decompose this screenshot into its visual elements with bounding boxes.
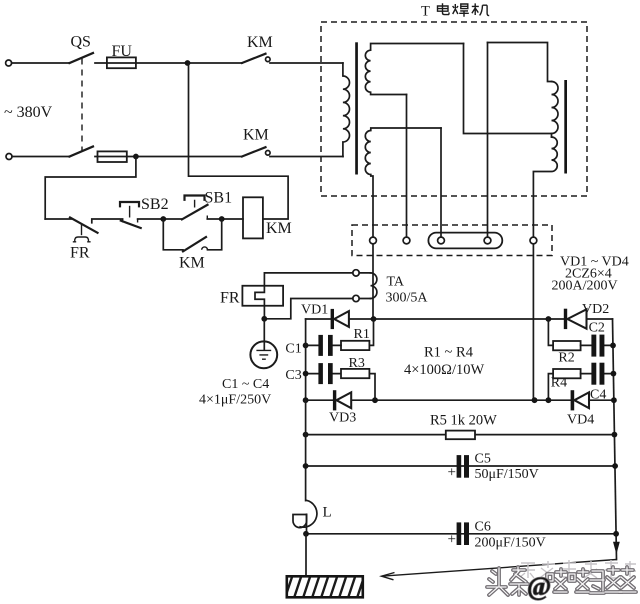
dashed terminal box <box>352 225 552 256</box>
QS mechanical linkage (dashed) <box>81 59 83 151</box>
wire phase L1 <box>12 62 70 64</box>
node rail-VD3 <box>303 397 309 403</box>
core bar left <box>355 42 358 174</box>
junction on L1 <box>185 60 191 66</box>
wire R5 line <box>306 434 615 436</box>
node rail-C3 <box>303 371 309 377</box>
svg-text:SB1: SB1 <box>205 190 233 207</box>
svg-text:4×100Ω/10W: 4×100Ω/10W <box>404 362 484 378</box>
resistor R3 <box>341 369 369 378</box>
resistor R5 <box>446 431 475 440</box>
wire L2 to KM <box>95 156 242 158</box>
left rail lower <box>305 400 307 500</box>
wire R3 to bottom line <box>369 374 375 401</box>
wire coil to upper rail <box>189 63 289 219</box>
current transformer TA secondary <box>353 270 359 276</box>
node A junction <box>371 316 377 322</box>
svg-text:C1: C1 <box>285 342 301 357</box>
svg-text:C2: C2 <box>589 321 605 336</box>
svg-text:KM: KM <box>179 255 205 272</box>
svg-text:FU: FU <box>112 43 133 60</box>
wire L1 into transformer <box>270 62 343 64</box>
diode VD1 <box>331 309 334 329</box>
svg-text:TA: TA <box>387 275 405 290</box>
svg-text:VD4: VD4 <box>567 413 594 428</box>
node L1 terminal <box>6 60 12 66</box>
contact KM auxiliary (self-hold) <box>163 219 183 250</box>
node rail-C6 right <box>613 531 619 537</box>
wire to ground <box>263 319 265 350</box>
node L2 terminal <box>6 154 12 160</box>
left rail <box>305 319 307 400</box>
winding primary (left leg outer) <box>343 63 350 157</box>
svg-text:KM: KM <box>247 34 273 51</box>
pushbutton SB2 (NC) <box>123 219 138 223</box>
wire R1 to node A <box>369 319 373 345</box>
svg-text:VD3: VD3 <box>329 411 356 426</box>
capacitor C6 <box>457 522 462 545</box>
wire TA top to FR heater <box>255 273 353 319</box>
svg-text:R4: R4 <box>551 376 567 391</box>
svg-text:SB2: SB2 <box>141 196 169 213</box>
inductor L <box>300 500 317 527</box>
wire L1 to KM <box>95 62 242 64</box>
svg-text:+: + <box>448 532 456 548</box>
node control A <box>160 216 166 222</box>
svg-text:T: T <box>421 4 430 20</box>
arrow down on right rail <box>613 542 620 554</box>
wire R4 stub <box>548 374 553 401</box>
wire node A line <box>306 318 564 320</box>
switch QS pole 2 <box>70 147 94 157</box>
contactor KM main contact 2 <box>242 147 266 156</box>
svg-text:C3: C3 <box>285 368 301 383</box>
svg-text:VD2: VD2 <box>582 302 609 317</box>
ground (chassis) symbol <box>250 341 277 368</box>
node rail-C5 right <box>612 463 618 469</box>
svg-text:L: L <box>323 505 332 521</box>
node rail-C5 left <box>303 463 309 469</box>
right rail <box>613 319 617 560</box>
wire VD2 to right rail <box>587 318 613 320</box>
resistor R4 <box>553 369 581 378</box>
label 电焊机 (hanzi strokes) <box>438 3 490 17</box>
svg-text:R1: R1 <box>354 327 370 342</box>
fuse FU (lower) <box>98 151 127 162</box>
svg-text:FR: FR <box>220 290 240 307</box>
node rail-C1 <box>303 343 309 349</box>
junction on L2 (control tap) <box>133 154 139 160</box>
svg-text:@: @ <box>527 572 551 601</box>
node rail-C6 left <box>303 531 309 537</box>
node R3-VD3 <box>372 397 378 403</box>
svg-text:FR: FR <box>70 245 90 262</box>
svg-text:R3: R3 <box>349 356 365 371</box>
node rail-R5 left <box>303 432 309 438</box>
svg-text:~ 380V: ~ 380V <box>4 104 53 121</box>
capacitor C2 <box>581 344 613 346</box>
wire control feed from L2 <box>45 157 136 220</box>
wire bottom AC line <box>306 399 571 401</box>
wire t5 down to bridge <box>533 244 534 400</box>
wire SB2 to node <box>138 218 182 220</box>
FR bimetal mark <box>81 224 83 236</box>
wire control rail left <box>45 218 71 220</box>
svg-text:+: + <box>448 465 456 481</box>
wire secondary A top to right mid <box>464 44 552 134</box>
svg-text:R5 1k 20W: R5 1k 20W <box>430 413 497 429</box>
heater FR element box <box>242 286 283 306</box>
relay contact FR (NC thermal) <box>70 218 98 233</box>
arrowhead electrode <box>382 573 395 580</box>
contactor KM main contact 1 <box>242 54 266 63</box>
wire electrode arrow diagonal <box>382 560 617 577</box>
node rail-R5 right <box>612 432 618 438</box>
wire VD4 to rail <box>589 399 614 401</box>
fuse FU (upper) <box>107 57 136 68</box>
wire C5 line <box>306 465 615 467</box>
capacitor C1 <box>306 344 341 346</box>
svg-text:KM: KM <box>266 220 292 237</box>
wire SB1 right <box>207 218 243 220</box>
node control B <box>219 216 225 222</box>
svg-text:200A/200V: 200A/200V <box>552 279 618 294</box>
winding secondary A (left leg top) <box>365 44 463 95</box>
wire phase L2 <box>12 156 70 158</box>
svg-text:QS: QS <box>71 34 91 51</box>
resistor R2 <box>553 341 581 350</box>
link bar (oval) <box>428 233 502 249</box>
resistor R1 <box>341 341 369 350</box>
capacitor C4 <box>581 373 614 375</box>
svg-text:R2: R2 <box>558 351 574 366</box>
svg-text:VD1: VD1 <box>301 303 328 318</box>
node ground junction <box>261 316 267 322</box>
dashed enclosure T <box>321 22 587 196</box>
node rail-C2 <box>610 343 616 349</box>
svg-text:C1 ~ C4: C1 ~ C4 <box>222 377 269 392</box>
workpiece block (hatched) <box>284 574 374 601</box>
core bar right <box>564 80 567 174</box>
terminal 3 <box>438 237 445 244</box>
svg-text:200μF/150V: 200μF/150V <box>475 536 546 551</box>
wire tap t2 <box>406 95 408 238</box>
node t5-bottom <box>532 397 538 403</box>
switch QS pole 1 <box>70 53 94 63</box>
svg-text:50μF/150V: 50μF/150V <box>475 467 539 482</box>
wire tap t4 <box>487 43 489 238</box>
wire C6 line <box>306 533 616 535</box>
winding secondary D (right leg bottom) <box>533 137 557 237</box>
diode VD3 <box>333 390 336 410</box>
diode VD2 <box>564 309 567 329</box>
diode VD4 <box>571 390 575 410</box>
terminal 4 <box>484 237 491 244</box>
node R4-bottom <box>546 397 552 403</box>
svg-text:R1 ~ R4: R1 ~ R4 <box>424 345 474 361</box>
coil KM <box>243 197 263 238</box>
terminal 2 <box>403 237 410 244</box>
svg-text:KM: KM <box>243 127 269 144</box>
capacitor C3 <box>306 373 341 375</box>
wire tap t3 <box>440 128 442 237</box>
capacitor C5 <box>457 455 462 478</box>
wire TA bottom return <box>264 299 353 319</box>
wire electrode lead <box>305 534 307 577</box>
pushbutton SB1 (NO) <box>182 205 208 220</box>
winding secondary B (left leg bottom) <box>365 128 441 237</box>
terminal 1 <box>370 237 377 244</box>
wire R2 stub <box>548 319 553 345</box>
wire L2 into transformer <box>270 156 343 158</box>
wire t1 down through TA <box>372 244 374 319</box>
node rail-VD4 <box>611 397 617 403</box>
terminal 5 <box>530 237 537 244</box>
svg-text:C5: C5 <box>475 452 491 467</box>
watermark faint <box>519 560 636 581</box>
svg-text:C6: C6 <box>475 520 491 535</box>
wire top link to right winding <box>488 43 552 82</box>
node rail-C4 <box>611 371 617 377</box>
svg-text:300/5A: 300/5A <box>386 291 429 306</box>
winding secondary C (right leg top) <box>552 82 559 138</box>
watermark 头条@哒哒与达达 <box>487 567 636 595</box>
node VD2 junction <box>546 316 552 322</box>
svg-text:4×1μF/250V: 4×1μF/250V <box>199 393 271 408</box>
